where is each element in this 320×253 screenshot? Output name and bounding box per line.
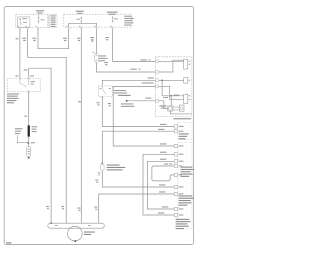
wire labels under box2 — [63, 38, 67, 39]
wire fuse2 to cooling unit pin1 — [113, 29, 156, 62]
middle column wires — [78, 29, 174, 223]
connector pin boxes P1 P2 P3 P4 — [184, 59, 188, 69]
heater relay (inner solid box) — [17, 17, 30, 27]
fuse AM1 label above — [76, 11, 84, 12]
border frame — [4, 7, 193, 245]
switch contact inside — [20, 79, 29, 86]
heater relay dashed box (bottom right upper) — [143, 122, 194, 229]
pin circles box1 — [19, 27, 21, 29]
motor ground dot — [74, 240, 76, 242]
blower resistor label block right — [181, 167, 194, 177]
pin number marks box2 — [66, 25, 111, 28]
pin tag for splice wire — [156, 99, 159, 102]
heater relay label block — [179, 133, 189, 139]
wire cooling unit to A/C pressure sw — [102, 80, 155, 86]
wire pressure sw down to tag row A — [102, 97, 174, 127]
wire labels above connectors — [46, 206, 49, 207]
noise filter pin tag — [93, 52, 95, 53]
wire labels under box1 — [16, 38, 19, 39]
blower motor label — [84, 232, 95, 233]
blower switch label block — [176, 219, 191, 229]
relay text — [22, 18, 27, 19]
relay block R/B No.1 (dashed box) — [16, 10, 57, 41]
junction tag rows right of fuse2 — [124, 16, 134, 26]
splice dot and wire to magnetic clutch — [126, 100, 128, 102]
relay contact line — [20, 19, 23, 25]
noise filter capsule — [95, 53, 99, 62]
fuse 2 symbol — [112, 16, 114, 22]
internal wire pin3 to P2 with junction — [159, 79, 184, 81]
wire A/C box down to ground — [28, 92, 30, 147]
A/C thermo sw labels above box — [15, 75, 18, 76]
pin number marks — [189, 61, 191, 100]
A/C dual pressure switch dashed box — [99, 86, 113, 97]
resistor loop wires r3 to r8 — [143, 154, 174, 215]
wire labels left of box — [141, 59, 147, 60]
connector capsule B1 — [48, 223, 105, 228]
wire end dot at B1 — [50, 222, 52, 224]
pin circles box2 — [68, 27, 70, 29]
cooling unit caption below box — [174, 118, 192, 119]
pin texts right of tags — [179, 126, 184, 216]
branch from junction down to P3 and magnetic clutch — [162, 80, 184, 96]
switch loop rounded — [152, 166, 174, 181]
relay coil dot — [20, 18, 21, 19]
row labels (wire colors) above rows near right end — [158, 124, 172, 214]
component name text block below — [7, 93, 19, 103]
ground dot — [28, 157, 30, 159]
left column wires and A/C thermo switch — [7, 29, 69, 225]
pointer wire to junction — [17, 135, 28, 143]
wire box2 pin2 long down to blower motor right — [80, 29, 82, 223]
fuse AM1 symbol — [80, 17, 82, 23]
blower switch dashed box — [178, 142, 192, 228]
inline connector capsule on x102 — [101, 162, 103, 164]
internal wire pin1 to connector box P1 — [159, 60, 184, 62]
relay block R/B No.2 (dashed box) — [63, 11, 134, 41]
fuse HTR symbol — [38, 14, 40, 23]
fusible link bus — [69, 23, 97, 27]
junction tag column rows (1J etc.) — [47, 15, 55, 27]
blower motor circle — [68, 226, 83, 241]
junction arrow — [28, 142, 30, 144]
wire box2 pin3 via noise filter to cooling unit — [97, 29, 156, 72]
wire A/C sw output to B1 connector — [29, 68, 51, 223]
clutch ground exit — [170, 111, 192, 114]
wire cooling unit to amplifier branch — [113, 86, 174, 146]
label on lower x102 segment — [95, 179, 98, 180]
magnetic clutch feed — [170, 96, 172, 106]
internal wire pin4 to P3 lower — [159, 86, 184, 99]
wire tag row B down to inline connector — [102, 131, 174, 163]
side label block with pointer — [15, 128, 23, 134]
A/C thermo switch dashed box — [7, 79, 40, 92]
blower resistor label block — [107, 165, 126, 171]
wire pin1 box1 down to A/C box — [19, 29, 21, 78]
wire fuse HTR to box2 bus — [38, 29, 69, 49]
clutch to P4 stubs — [173, 107, 180, 110]
internal wire pin2 elbow up to P1 — [159, 60, 184, 72]
splice wire into M box — [159, 101, 168, 109]
wire inline connector down to tag row r5 — [102, 171, 174, 187]
resistor loop wires r4 to r7 — [147, 161, 174, 209]
bottom connectors and blower motor — [6, 206, 104, 244]
page number 1995 — [6, 242, 11, 243]
shielded wire black bar — [28, 125, 30, 136]
cooling unit dashed box — [130, 57, 192, 119]
pin tags at box left edge — [156, 60, 159, 88]
pin tags column — [174, 125, 183, 217]
label mid height near motor feed — [78, 101, 81, 102]
fuse HTR label above box — [36, 10, 44, 11]
pin number marks box1 — [18, 25, 38, 28]
magnetic clutch box with motor circle — [168, 106, 173, 111]
mid text block — [179, 195, 194, 205]
wire labels beside verticals — [97, 102, 100, 103]
wire tag row r6 to B2 connector (motor right return) — [99, 194, 175, 223]
wire pin2 box1 to long mid vertical (motor left feed) — [28, 29, 67, 224]
A/C dual pressure sw label — [114, 90, 126, 91]
ground capsule connector — [27, 147, 31, 157]
fuse 2 label above — [107, 12, 118, 13]
